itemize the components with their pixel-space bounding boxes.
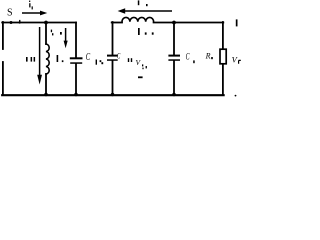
speck near bottom right: [235, 95, 237, 97]
resistor RL box: [220, 49, 226, 64]
label L1 beside inductor: [57, 55, 64, 62]
svg-text:C: C: [186, 51, 190, 62]
minus sign under VB1: [138, 76, 143, 78]
wire inductor L1 branch top: [45, 23, 47, 45]
svg-text:S: S: [7, 8, 13, 19]
wire right-loop left edge bottom: [112, 61, 114, 95]
label in (left branch current label, three ticks): [26, 57, 35, 62]
wire right-loop top rail right segment: [154, 22, 224, 24]
label RL: [205, 52, 213, 61]
wire bottom rail (shared ground rail): [2, 94, 223, 96]
capacitor C1 top plate: [70, 57, 83, 59]
wire capacitor C1 branch bottom: [75, 64, 77, 95]
node junction dot at L1 top: [44, 21, 48, 25]
wire right edge below resistor: [222, 64, 224, 95]
wire top-left rail of input loop: [2, 22, 76, 24]
label Vo: [232, 55, 241, 65]
current arrow iL1 (long, down, left of L1): [37, 27, 42, 85]
svg-text:V: V: [136, 58, 142, 67]
label i1 above arrow: [29, 1, 33, 10]
switch contact dot 1: [10, 21, 13, 24]
switch contact dot 2 with nub: [19, 20, 21, 24]
label L2 below inductor: [138, 28, 154, 35]
wire right-loop top rail left stub: [112, 22, 122, 24]
node junction dot at L1 bottom: [44, 93, 48, 97]
left edge upper segment: [2, 22, 4, 49]
current arrow iC1 (short, down): [64, 28, 68, 48]
label iL1 near top of short arrow: [51, 30, 62, 36]
node junction dot at CB top: [172, 21, 176, 25]
label C1: [86, 50, 103, 64]
wire right edge above resistor: [222, 22, 224, 49]
capacitor CB1 bottom plate: [107, 59, 118, 61]
wire inductor L1 branch bottom: [45, 74, 47, 95]
current arrow i2 (above L2, pointing left): [118, 8, 172, 13]
label CB: [186, 51, 195, 63]
wire right-loop left edge top (capacitor CB1 branch): [112, 22, 114, 55]
plus tick above Vo: [236, 19, 238, 26]
wire middle capacitor CB branch bottom: [173, 61, 175, 95]
node junction dot at CB1 bottom: [111, 93, 115, 97]
label VB1: [136, 58, 147, 69]
wire middle capacitor CB branch top: [173, 23, 175, 55]
svg-text:V: V: [232, 55, 239, 65]
svg-text:R: R: [205, 52, 211, 61]
left edge lower segment: [2, 62, 4, 95]
current arrow i1 (top-left, pointing right): [22, 11, 47, 16]
capacitor CB top plate: [168, 55, 180, 57]
node junction dot at C1 bottom: [74, 93, 78, 97]
label CB1: [117, 52, 132, 62]
svg-text:C: C: [117, 52, 121, 60]
node junction dot at CB bottom: [172, 93, 176, 97]
capacitor CB bottom plate: [168, 59, 180, 61]
capacitor C1 bottom plate: [70, 62, 82, 64]
inductor L2 (top, horizontal): [122, 17, 154, 21]
wire capacitor C1 branch top: [75, 23, 77, 58]
svg-text:C: C: [86, 50, 91, 62]
inductor L1: [46, 44, 49, 74]
capacitor CB1 top plate: [107, 55, 118, 57]
label i2 above arrow: [138, 0, 148, 6]
